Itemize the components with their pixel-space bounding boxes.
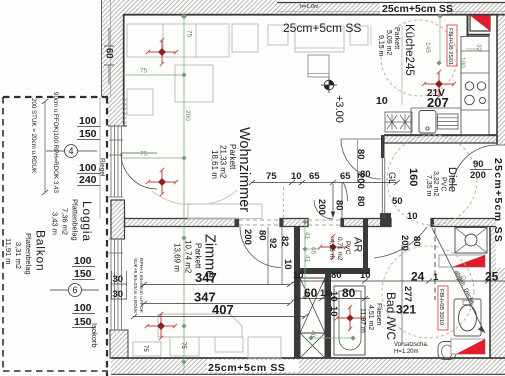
svg-text:92: 92 [267,238,278,249]
sideboard bottom wohnzimmer [188,204,262,219]
svg-text:10: 10 [328,291,339,302]
wall exterior right: bad segment [490,227,505,359]
svg-text:75: 75 [142,345,148,352]
green construction line long vertical [183,16,185,373]
stove burners [465,82,473,90]
AR wall right [363,219,368,274]
AR door swing small [314,200,333,219]
svg-text:60: 60 [104,48,115,59]
svg-text:80: 80 [331,270,342,281]
armchair [127,89,153,115]
dim line diele opening [357,140,359,182]
svg-text:41: 41 [304,255,311,263]
dining table [295,26,344,52]
svg-text:240: 240 [79,174,97,186]
svg-text:10: 10 [291,171,302,182]
green dim 75 at balcony door [122,157,184,159]
sofa [127,24,229,57]
balcony door window assembly left wall [109,126,123,197]
kitchen counter edge [411,107,461,109]
kitchen tall cabinets right [461,37,489,136]
svg-text:PVC: PVC [440,177,447,191]
svg-text:+3.00: +3.00 [333,95,345,123]
red slope bar upper [439,255,485,267]
svg-text:RPH+1,90=90cm u.FFOK: RPH+1,90=90cm u.FFOK [138,258,144,314]
lintel dashes over AR door opening [308,219,341,221]
kitchen zone boundary line [401,25,403,105]
bottom band label [207,360,299,372]
svg-text:25cm+5cm SS: 25cm+5cm SS [382,3,453,15]
svg-text:75: 75 [140,68,148,75]
circle 4 symbol [65,145,78,158]
svg-text:200: 200 [399,235,410,251]
nightstand [133,342,161,356]
svg-text:4,51 m2: 4,51 m2 [367,305,374,330]
svg-text:50: 50 [392,196,403,207]
dresser right of bed [248,337,281,358]
wall left piece above balcony door [108,97,127,126]
green kitchen node [437,13,442,18]
red crosshair bad [335,305,365,331]
svg-text:Fliesen: Fliesen [375,303,382,326]
red dashed circle diele [387,135,477,225]
svg-text:AR: AR [352,237,364,252]
svg-text:10: 10 [376,95,388,107]
AR wall left [294,227,300,275]
dashed partition in bad [434,228,436,300]
dining chair left [268,25,288,45]
zimmer east wall [294,274,300,358]
svg-text:3,31 m2: 3,31 m2 [14,242,23,269]
svg-text:100: 100 [74,255,92,267]
svg-text:10: 10 [328,306,339,317]
svg-text:150: 150 [79,128,97,140]
svg-text:3,32 m2: 3,32 m2 [432,171,439,196]
balcony door leaf [121,152,157,154]
svg-text:65: 65 [340,171,351,182]
entry door swing right wall [452,145,497,190]
svg-text:30: 30 [113,274,124,285]
svg-text:Isokorb: Isokorb [90,323,99,348]
svg-text:145: 145 [424,42,431,53]
svg-text:FBH+UB 25/01: FBH+UB 25/01 [447,28,453,65]
svg-text:200: 200 [470,170,486,181]
right wall rotated label [496,148,505,268]
svg-text:Parkett: Parkett [228,144,237,170]
svg-text:65: 65 [309,171,320,182]
svg-text:Loggia: Loggia [80,201,94,242]
GL glass element diele west [381,158,383,219]
wardrobe closet with X cells [300,278,325,358]
bad west wall [325,274,331,358]
svg-text:24: 24 [411,270,425,284]
svg-text:4,25 m: 4,25 m [328,239,335,259]
interior wall wohnzimmer/zimmer segment 1 [125,219,239,227]
svg-text:Balkon: Balkon [34,230,48,272]
svg-text:90cm u.FFOK(100 RPH=RDOK 3,43: 90cm u.FFOK(100 RPH=RDOK 3,43 [52,92,59,193]
svg-text:100: 100 [79,162,97,174]
svg-text:32: 32 [475,44,482,52]
bathtub [334,286,365,355]
red label box kueche [447,25,457,66]
ghost door arcs [152,190,237,204]
svg-text:25cm+5cm SS: 25cm+5cm SS [208,362,286,374]
washbasin vanity [454,299,481,336]
wohnzimmer-diele door swing [341,139,381,179]
svg-text:6: 6 [72,285,77,295]
red dashed circle bad [382,246,474,338]
svg-text:10: 10 [407,211,418,222]
svg-text:200 STUK = 20cm u.RDUK: 200 STUK = 20cm u.RDUK [30,98,37,174]
svg-text:65: 65 [310,247,317,255]
green dim 75 upper [122,74,184,76]
pillow 2 [215,337,243,352]
svg-text:10: 10 [282,259,293,270]
svg-text:25cm+5cm SS: 25cm+5cm SS [283,21,361,35]
right wall door opening edges [497,144,505,146]
svg-text:Parkett: Parkett [393,27,400,49]
svg-text:407: 407 [212,302,234,317]
svg-text:150: 150 [74,316,92,328]
svg-text:21V: 21V [427,88,445,99]
bad dims chain y298 [294,298,370,300]
svg-text:100: 100 [459,57,466,68]
svg-text:200: 200 [355,173,366,189]
wall exterior top-left band [124,0,277,15]
wall exterior right: upper segment [497,14,505,145]
svg-text:25: 25 [485,270,499,284]
svg-text:4: 4 [68,146,73,156]
diele west wall top piece [381,135,385,158]
circle 6 symbol [69,284,82,297]
svg-text:10,74 m2: 10,74 m2 [184,240,193,274]
svg-text:150: 150 [74,268,92,280]
wall exterior bottom band [111,358,505,375]
svg-text:200: 200 [242,229,253,245]
door frame dashed zimmer [283,187,285,218]
svg-text:80: 80 [411,236,422,247]
pillow 1 [170,337,199,356]
green bad dim 40 [311,337,353,339]
svg-text:41: 41 [304,232,311,240]
svg-text:10: 10 [293,270,304,281]
red slope bar lower [451,339,485,354]
wc toilet [438,342,456,360]
svg-text:7,35 m: 7,35 m [425,175,432,197]
red crosshair AR [318,234,348,260]
svg-text:200: 200 [184,110,191,121]
dining chair right [350,26,368,45]
zimmer door swing [240,227,281,268]
vertical dim line with arrow [332,184,334,217]
svg-text:FBH+0B 30/10: FBH+0B 30/10 [438,289,444,325]
svg-text:Zimmer: Zimmer [202,234,218,283]
wall block between balcony door and zimmer window [111,200,125,239]
svg-text:Parkett: Parkett [194,243,203,269]
red crosshair wohnzimmer mid [146,168,178,196]
level symbol [321,77,337,93]
svg-text:GL: GL [387,172,397,184]
shower [455,228,487,254]
side table below [308,55,329,77]
svg-text:9,15 m: 9,15 m [377,35,384,57]
wall block zimmer window bottom [110,330,128,358]
shaft box with red triangle [470,16,490,32]
svg-text:11,97 m: 11,97 m [359,308,366,333]
svg-text:25cm+5cm SS: 25cm+5cm SS [492,158,504,243]
interior wall bad north segment [431,219,497,227]
svg-text:90: 90 [473,159,484,170]
svg-text:75: 75 [180,342,186,349]
wall exterior top-right band [277,3,505,15]
svg-text:5,09 m2: 5,09 m2 [385,30,392,55]
dishwasher box with x marks [385,112,412,132]
red crosshair zimmer [145,312,177,340]
wall exterior right: segment between doors [497,190,505,227]
interior wall piece right of zimmer door [280,219,308,227]
svg-text:3,43 m: 3,43 m [51,212,60,235]
wall exterior left upper [101,0,124,97]
svg-text:10: 10 [360,270,371,281]
kitchen sink [419,111,436,134]
svg-text:1: 1 [433,272,439,283]
svg-text:277: 277 [402,286,413,302]
green AR vertical line [304,219,306,300]
svg-text:80: 80 [342,286,356,300]
svg-text:Küche245: Küche245 [403,24,415,76]
svg-text:80: 80 [334,200,345,211]
shaft walls top right [467,15,469,36]
svg-text:h=1.0m: h=1.0m [300,4,319,10]
svg-text:Wohnzimmer: Wohnzimmer [236,127,252,212]
kitchen/diele wall band [384,136,497,144]
bed [158,314,242,337]
top band bold label [380,3,447,14]
svg-text:200: 200 [316,199,327,215]
svg-text:13,69 m: 13,69 m [173,243,182,272]
svg-text:Plattenbelag: Plattenbelag [24,233,33,275]
red crosshair wohnzimmer top [146,38,178,66]
balcony door swing arc [121,153,157,189]
svg-text:100: 100 [74,302,92,314]
zimmer window assembly left wall [109,239,123,330]
svg-text:82: 82 [279,236,290,247]
dim chain horizontal wohnzimmer y182 [251,182,397,184]
svg-text:Vorsatzscha.: Vorsatzscha. [394,342,429,348]
green label 32 cabinet [466,48,478,50]
svg-text:321: 321 [396,303,416,317]
svg-text:18,61 m: 18,61 m [210,150,219,179]
svg-text:30: 30 [113,289,124,300]
abgehaengte decke diagonal arrow [432,228,485,333]
svg-text:0,71 m2: 0,71 m2 [336,237,343,261]
bad door swing [374,227,427,258]
node [181,13,187,19]
svg-text:80: 80 [355,196,366,207]
svg-text:H=1.20m: H=1.20m [394,349,419,355]
svg-text:75: 75 [266,171,277,182]
svg-text:Diele: Diele [446,167,458,192]
AR wall bottom [294,268,370,274]
wohnzimmer-diele door leaf [341,138,381,140]
bad dims chain y281 [294,280,505,282]
svg-text:11,91 m: 11,91 m [4,238,13,265]
svg-text:Riegel: Riegel [99,158,106,177]
interior wall segment AR to bad door [341,219,391,227]
svg-text:80: 80 [257,230,268,241]
svg-text:40: 40 [309,330,316,338]
wall inner edge top [124,14,505,16]
svg-text:75: 75 [140,151,148,158]
svg-text:Bad /WC: Bad /WC [384,292,398,340]
svg-text:60: 60 [304,286,318,300]
sink drainer [438,114,459,129]
svg-text:100: 100 [79,115,97,127]
lintel dashes over zimmer door opening [239,219,280,221]
red dashed circle kueche [381,20,457,96]
red label box bad [438,286,448,330]
svg-text:160: 160 [407,168,419,186]
svg-text:Plattenbelag: Plattenbelag [71,199,80,241]
svg-text:SUK+5,90=20cm u.RDUK: SUK+5,90=20cm u.RDUK [132,258,138,314]
svg-text:7,36 m2: 7,36 m2 [61,208,70,235]
svg-text:PVC: PVC [344,241,351,255]
red crosshair kueche [422,70,456,98]
svg-text:75: 75 [186,30,193,38]
coffee table [175,65,213,102]
svg-text:80: 80 [355,149,366,160]
balcony dashed outline [3,96,108,98]
